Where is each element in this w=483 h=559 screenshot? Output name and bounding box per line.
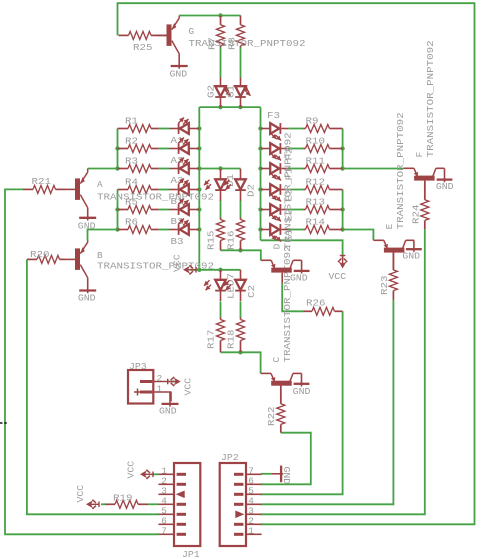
resistor R3	[118, 156, 159, 173]
wire transistor B emitter to bus	[88, 230, 118, 241]
wire R14 row to transistor E	[343, 230, 374, 241]
wire C group top	[190, 269, 241, 271]
svg-text:R16: R16	[226, 230, 237, 250]
wire R21 to JP1 pin 7	[5, 189, 159, 534]
transistor A	[65, 169, 214, 208]
svg-text:JP3: JP3	[129, 361, 147, 372]
wire right bus to VCC stub	[261, 240, 343, 259]
ground right of transistor D	[290, 260, 310, 283]
wire right upper bus R9-R11	[342, 129, 344, 169]
LED A2	[169, 138, 199, 167]
resistor R19	[105, 493, 148, 509]
svg-text:D: D	[271, 243, 282, 249]
svg-text:1: 1	[157, 384, 163, 395]
wire R23 to JP2 pin 4	[261, 300, 394, 505]
junction LED A-B 4	[197, 187, 201, 191]
svg-text:R12: R12	[306, 177, 326, 188]
svg-text:F: F	[414, 152, 425, 158]
wire JP3 pin1 to ground	[170, 392, 172, 401]
svg-text:GND: GND	[78, 220, 96, 231]
junction R6	[115, 227, 119, 231]
transistor B	[65, 241, 214, 278]
ground below transistor G	[170, 54, 188, 80]
resistor R21	[23, 176, 65, 193]
resistor R8	[227, 16, 245, 51]
svg-text:R19: R19	[113, 493, 133, 504]
wire right lower bus R12-R14	[342, 190, 344, 230]
LED A3	[169, 158, 199, 187]
resistor R6	[118, 217, 159, 234]
LED G2	[206, 78, 231, 108]
svg-text:B: B	[97, 250, 103, 261]
svg-text:GND: GND	[78, 293, 96, 304]
wire left lower bus R4-R6	[117, 190, 119, 230]
svg-text:F3: F3	[267, 110, 280, 121]
LED G1	[226, 78, 251, 108]
svg-text:R20: R20	[30, 249, 50, 260]
LED C2	[224, 270, 257, 301]
resistor R4	[118, 177, 159, 194]
junction LED E-F 5	[258, 207, 262, 211]
svg-text:E: E	[384, 223, 395, 229]
wire R4 to LED gap	[159, 189, 169, 191]
wire transistor G emitter rail	[179, 15, 240, 17]
VCC arrow left of C1 C2 wire	[172, 254, 197, 274]
svg-text:R14: R14	[306, 217, 326, 228]
wire LED to R13 gap	[288, 209, 303, 211]
junction G2 leg	[218, 105, 222, 109]
svg-text:GND: GND	[293, 386, 311, 397]
svg-text:D2: D2	[246, 184, 257, 197]
LED F2	[261, 143, 295, 160]
ground right of transistor F	[436, 168, 454, 192]
LED B1	[169, 179, 199, 208]
VCC arrow at JP3 pin 2	[168, 377, 194, 396]
wire LED anode bus left	[198, 107, 200, 270]
VCC arrow at JP1 pin 1	[126, 460, 154, 478]
wire D2 leg	[240, 200, 242, 218]
LED E2	[261, 204, 295, 221]
junction R3	[115, 166, 119, 170]
wire R22 to JP2 pin 6	[261, 433, 311, 485]
LED F1	[261, 163, 295, 180]
VCC arrow below right bus	[329, 256, 348, 283]
transistor D	[261, 132, 302, 283]
connector JP1	[159, 463, 201, 559]
wire R20 to JP1 pin 5	[27, 259, 159, 514]
svg-text:R24: R24	[410, 204, 421, 224]
resistor R26	[304, 298, 343, 316]
svg-text:R22: R22	[266, 407, 277, 427]
wire LED to R10 gap	[288, 148, 303, 150]
svg-text:7: 7	[161, 525, 167, 536]
svg-text:GND: GND	[281, 467, 292, 485]
LED E1	[261, 224, 295, 241]
resistor R18	[226, 318, 245, 353]
wire C1 leg	[220, 302, 222, 318]
svg-text:R1: R1	[125, 116, 138, 127]
junction LED E-F 1	[258, 126, 262, 130]
svg-text:1: 1	[248, 525, 254, 536]
LED B2	[169, 199, 199, 228]
resistor R5	[118, 197, 159, 214]
svg-text:TRANSISTOR_PNPT092: TRANSISTOR_PNPT092	[97, 192, 214, 203]
wire R2 to LED gap	[159, 148, 169, 150]
resistor R10	[304, 136, 343, 153]
wire C2 leg	[240, 302, 242, 318]
LED E3	[261, 184, 295, 201]
transistor F	[404, 40, 445, 199]
resistor R7	[207, 16, 225, 51]
wire LED to R9 gap	[288, 128, 303, 130]
svg-text:GND: GND	[290, 273, 308, 284]
transistor G	[157, 16, 306, 54]
svg-text:G: G	[189, 26, 195, 37]
wire R17 R18 bottoms to transistor C	[221, 352, 261, 373]
svg-text:R23: R23	[379, 275, 390, 295]
wire R15 R16 bottoms to transistor D	[221, 250, 261, 260]
transistor E	[373, 112, 414, 269]
ground right of transistor C	[293, 373, 311, 397]
wire R3 to LED gap	[159, 168, 169, 170]
wire row3 to D1 D2 tops	[199, 168, 240, 170]
LED A1	[169, 118, 199, 147]
svg-text:R15: R15	[206, 230, 217, 250]
ground below JP3	[159, 392, 179, 417]
resistor R16	[226, 218, 245, 251]
LED D2	[224, 169, 257, 201]
junction left bus bottom	[197, 268, 201, 272]
svg-text:JP2: JP2	[221, 452, 239, 463]
junction LED E-F 3	[258, 166, 262, 170]
ground at JP2 pin 7	[272, 466, 292, 485]
junction R14	[340, 227, 344, 231]
junction G1 leg	[238, 105, 242, 109]
svg-text:TRANSISTOR_PNPT092: TRANSISTOR_PNPT092	[425, 40, 436, 157]
wire G1 leg	[240, 48, 242, 78]
wire R19 left to VCC	[101, 503, 105, 505]
svg-text:B3: B3	[171, 236, 184, 247]
svg-text:R13: R13	[306, 197, 326, 208]
svg-text:VCC: VCC	[183, 377, 194, 395]
wire LED anode bus right	[260, 107, 262, 240]
resistor R25	[119, 31, 167, 53]
svg-text:VCC: VCC	[172, 254, 183, 272]
junction R18 bottom	[238, 350, 242, 354]
junction LED E-F 6	[258, 227, 262, 231]
svg-text:C2: C2	[246, 285, 257, 298]
svg-text:R17: R17	[206, 330, 217, 350]
svg-text:G2: G2	[206, 85, 217, 98]
LED D1	[204, 169, 236, 201]
ground below transistor A	[78, 208, 96, 232]
LED C1	[204, 270, 237, 301]
resistor R1	[118, 116, 159, 133]
wire R26 to JP2 pin 5	[261, 311, 343, 494]
svg-text:TRANSISTOR_PNPT092: TRANSISTOR_PNPT092	[282, 132, 293, 249]
junction R10	[340, 146, 344, 150]
wire net from R25 via top rail to JP2 pin 2	[118, 3, 475, 524]
wire LED box top	[199, 106, 260, 108]
LED B3	[169, 219, 199, 248]
svg-text:R6: R6	[125, 217, 138, 228]
svg-text:GND: GND	[402, 251, 420, 262]
wire G2 leg	[220, 48, 222, 78]
svg-text:R25: R25	[133, 42, 153, 53]
wire R6 to LED gap	[159, 229, 169, 231]
LED F3	[261, 110, 289, 141]
resistor R14	[304, 217, 343, 234]
wire LED to R12 gap	[288, 189, 303, 191]
resistor R15	[206, 218, 225, 251]
svg-text:VCC: VCC	[329, 271, 347, 282]
svg-text:2: 2	[157, 373, 163, 384]
wire R19 to JP1 pin 4	[148, 503, 159, 505]
resistor R23	[379, 251, 397, 300]
wire JP1 pin 1 to VCC	[152, 473, 159, 475]
wire R1 to LED gap	[159, 128, 169, 130]
resistor R22	[266, 385, 285, 433]
svg-text:JP1: JP1	[182, 549, 200, 559]
junction LED A-B 2	[197, 146, 201, 150]
junction R16 bottom	[238, 248, 242, 252]
svg-text:GND: GND	[159, 406, 177, 417]
junction LED A-B 1	[197, 126, 201, 130]
svg-text:G1: G1	[226, 85, 237, 98]
svg-text:R2: R2	[125, 136, 138, 147]
svg-text:R26: R26	[306, 298, 326, 309]
junction LED E-F 2	[258, 146, 262, 150]
svg-text:A: A	[97, 179, 103, 190]
ground right of transistor E	[402, 240, 421, 261]
junction R11	[340, 166, 344, 170]
resistor R11	[304, 156, 343, 173]
svg-text:VCC: VCC	[126, 460, 137, 478]
resistor R24	[410, 181, 429, 230]
resistor R17	[206, 318, 225, 353]
svg-text:C: C	[271, 357, 282, 363]
junction LED E-F 4	[258, 187, 262, 191]
svg-text:TRANSISTOR_PNPT092: TRANSISTOR_PNPT092	[189, 38, 306, 49]
wire LED to R11 gap	[288, 168, 303, 170]
junction C1 top	[218, 268, 222, 272]
wire left upper bus R1-R3	[117, 129, 119, 169]
wire D1 leg	[220, 200, 222, 218]
resistor R2	[118, 136, 159, 153]
wire LED to R14 gap	[288, 229, 303, 231]
svg-text:R3: R3	[125, 156, 138, 167]
junction LED A-B 6	[197, 227, 201, 231]
resistor R13	[304, 197, 343, 214]
wire transistor D base to R26	[282, 283, 303, 311]
svg-text:R21: R21	[32, 176, 52, 187]
junction R13	[340, 207, 344, 211]
wire JP3 pin 2 to VCC	[172, 381, 175, 383]
svg-text:R4: R4	[125, 177, 138, 188]
wire R11 row to transistor F	[343, 168, 404, 170]
svg-text:R10: R10	[306, 136, 326, 147]
wire JP2 pin 7 to GND	[261, 473, 272, 475]
junction R2	[115, 146, 119, 150]
resistor R9	[304, 116, 343, 133]
wire transistor A emitter to bus	[88, 168, 118, 170]
resistor R20	[27, 249, 65, 263]
junction R5	[115, 207, 119, 211]
svg-text:R11: R11	[306, 156, 326, 167]
junction R7 top	[218, 13, 222, 17]
ground below transistor B	[78, 278, 96, 304]
frame mark	[0, 422, 7, 424]
junction LED A-B 5	[197, 207, 201, 211]
wire R5 to LED gap	[159, 209, 169, 211]
wire R24 to JP2 pin 3	[261, 229, 425, 514]
svg-text:GND: GND	[170, 69, 188, 80]
svg-text:R9: R9	[306, 116, 319, 127]
junction LED A-B 3	[197, 166, 201, 170]
connector JP3	[128, 361, 172, 404]
resistor R12	[304, 177, 343, 194]
VCC arrow left of R19	[75, 484, 99, 508]
svg-text:TRANSISTOR_PNPT092: TRANSISTOR_PNPT092	[395, 112, 406, 229]
connector JP2	[220, 452, 262, 546]
junction D1 top	[218, 166, 222, 170]
svg-text:GND: GND	[436, 181, 454, 192]
svg-text:VCC: VCC	[75, 484, 86, 502]
svg-text:R18: R18	[226, 329, 237, 349]
transistor C	[261, 246, 302, 404]
